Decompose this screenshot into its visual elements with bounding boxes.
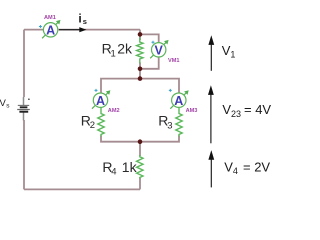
wire left vertical [23,30,25,190]
svg-text:= 2V: = 2V [243,159,270,174]
wire parallel top rail [101,79,179,94]
wire VM1 bottom branch [140,57,159,69]
svg-text:1: 1 [111,48,116,59]
svg-text:4: 4 [111,167,116,178]
arrow V4 [208,150,214,187]
svg-text:4: 4 [233,166,238,176]
wire bottom horizontal [24,188,140,190]
svg-text:s: s [6,102,10,109]
svg-text:1k: 1k [122,159,138,175]
svg-text:A: A [174,94,183,108]
svg-text:A: A [46,23,55,37]
svg-text:3: 3 [167,120,172,131]
wire top horizontal [24,29,140,31]
svg-text:AM3: AM3 [186,108,198,114]
svg-text:VM1: VM1 [168,58,180,64]
svg-text:V: V [155,43,164,57]
voltage source Vs battery [17,97,30,121]
label R3 [158,113,172,132]
label R4 1k [102,159,137,178]
resistor R3 [176,108,182,137]
wire R4 branch [139,142,141,190]
current arrow is [59,27,87,32]
resistor R2 [98,108,104,137]
wire R2 bottom to rail [101,136,140,142]
wire VM1 top branch [140,34,159,43]
svg-text:23: 23 [231,109,241,119]
arrow V23 [208,85,214,143]
node parallel top rail center [138,76,143,81]
label V1 [222,43,236,60]
svg-text:2: 2 [90,120,95,131]
svg-text:1: 1 [230,50,235,60]
resistor R1 [137,38,143,64]
ammeter AM1 [39,20,61,38]
svg-text:AM2: AM2 [108,108,120,114]
label V23 = 4V [222,102,271,119]
ammeter AM2 [92,89,110,109]
ammeter AM3 [169,89,189,109]
arrow V1 [208,35,214,71]
label AM1 [44,15,56,21]
wire R1 branch vertical [139,30,141,79]
label is [78,11,86,26]
resistor R4 [137,155,143,179]
voltmeter VM1 [150,40,168,58]
label R1 2k [102,41,133,60]
node R1 bottom [138,67,143,72]
label AM2 [108,108,120,114]
svg-text:i: i [78,11,81,25]
label Vs [0,98,10,109]
svg-text:AM1: AM1 [44,15,56,21]
node R1 top [138,32,143,37]
svg-text:A: A [96,94,105,108]
svg-text:2k: 2k [117,41,133,57]
wire R3 bottom to rail [140,136,179,142]
svg-text:= 4V: = 4V [244,102,271,117]
label V4 = 2V [224,159,270,176]
label VM1 [168,58,180,64]
label R2 [81,112,95,131]
node parallel bottom rail center [138,139,143,144]
svg-text:s: s [83,17,87,26]
label AM3 [186,108,198,114]
